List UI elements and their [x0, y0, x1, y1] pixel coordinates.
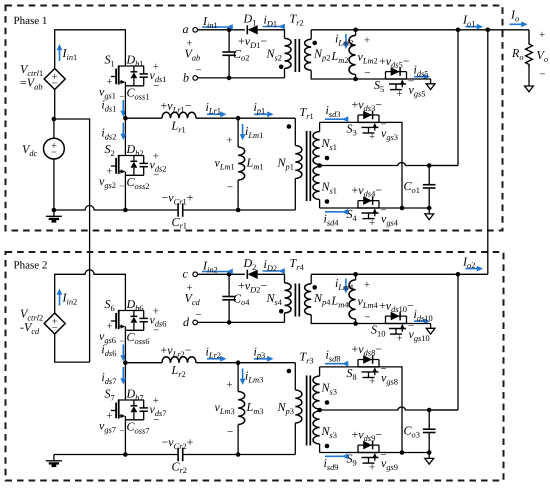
- current arrow isd3: [325, 103, 348, 122]
- labels for switch S4: [347, 183, 399, 229]
- wire bottom rail to transformer primary: [183, 454, 295, 456]
- labels for switch S2: [99, 142, 166, 191]
- wire S3 down to bottom: [379, 122, 402, 208]
- diode D2: [238, 256, 267, 295]
- current arrow Io: [510, 8, 528, 28]
- terminal b: [183, 64, 202, 84]
- capacitor Coss2: [140, 156, 148, 176]
- switch S10: [386, 312, 407, 334]
- wire terminal d to Ns4: [198, 321, 285, 323]
- wire interphase link down to Phase 2: [54, 119, 90, 362]
- node secondary center tap: [317, 163, 322, 168]
- wire between S1 and midpoint: [124, 86, 126, 118]
- current arrow Iin2: [57, 289, 78, 307]
- current arrow ids5: [414, 63, 431, 80]
- svg-text:−: −: [227, 426, 233, 438]
- svg-text:+: +: [364, 279, 370, 291]
- current arrow ip3: [254, 344, 274, 361]
- transformer Tr3 secondary winding Ns3 upper: [313, 367, 337, 409]
- junction Lm1 bottom: [236, 208, 241, 213]
- inductor Lr2: [161, 343, 197, 379]
- capacitor Coss1: [140, 66, 148, 86]
- inductor Lm3: [215, 363, 264, 455]
- current arrow Iin1: [57, 44, 78, 62]
- wire secondary top to S8: [320, 366, 358, 368]
- svg-text:+: +: [369, 461, 375, 473]
- ground arrow below Ro: [525, 68, 534, 92]
- svg-text:−: −: [52, 323, 58, 334]
- svg-text:−: −: [119, 181, 124, 191]
- wire output rail down to center tap rail: [429, 30, 458, 166]
- svg-text:d: d: [183, 315, 190, 329]
- wire secondary bottom to S9: [320, 452, 358, 454]
- wire terminal b to Ns2: [198, 77, 285, 79]
- svg-text:−: −: [380, 449, 386, 461]
- svg-text:+: +: [226, 135, 232, 147]
- ground arrow below Co3: [425, 453, 434, 465]
- current arrow isd8: [325, 348, 348, 367]
- current arrow isd9: [324, 453, 349, 471]
- switch S1: [111, 65, 144, 85]
- transformer Tr1 core: [300, 105, 314, 201]
- svg-text:a: a: [183, 22, 189, 36]
- current arrow iD1: [263, 13, 285, 30]
- ground symbol phase 2: [46, 455, 62, 466]
- current arrow ds7: [101, 367, 126, 386]
- current arrow iLm4: [335, 276, 354, 294]
- svg-text:−: −: [51, 147, 57, 158]
- wire center tap rail with hop over vertical wire: [320, 407, 458, 410]
- capacitor Coss7: [140, 400, 148, 420]
- resistor Ro: [511, 30, 532, 68]
- capacitor Coss6: [140, 311, 148, 331]
- wire S2 source to bottom rail: [123, 175, 128, 212]
- switch S4: [358, 196, 379, 218]
- wire secondary bottom to S4: [320, 207, 358, 209]
- Phase 1 dashed boundary box: [6, 6, 503, 231]
- wire bottom rectifier rail: [379, 450, 432, 455]
- labels for switch S10: [371, 298, 430, 344]
- transformer Tr2 primary winding Np2: [305, 30, 356, 79]
- wire output bus between phases: [487, 30, 489, 274]
- current arrow ds2: [101, 123, 126, 142]
- wire Lm2 to S5: [356, 78, 386, 80]
- wire midpoint to Lr2: [125, 362, 162, 364]
- wire bottom rail with hop over interphase link: [54, 206, 178, 211]
- wire midpoint to S7: [124, 363, 126, 400]
- svg-text:+: +: [369, 376, 375, 388]
- wire between S6 and midpoint: [124, 330, 126, 362]
- wire Lr2 to node with magnetizing branch: [196, 360, 240, 365]
- controlled voltage source Vctrl2: [20, 307, 65, 336]
- wire output rail down to center tap rail: [429, 274, 458, 410]
- svg-text:b: b: [183, 70, 189, 84]
- ground arrow after S5: [407, 79, 436, 90]
- inductor Lm4: [331, 272, 379, 326]
- svg-text:−: −: [195, 64, 201, 76]
- junction output capacitor top: [427, 408, 432, 413]
- inductor Lm2: [331, 28, 378, 82]
- ground symbol phase 1: [46, 210, 62, 221]
- svg-text:−: −: [195, 309, 201, 321]
- labels for switch S9: [347, 427, 398, 473]
- labels for switch S1: [99, 53, 166, 102]
- svg-text:−: −: [153, 414, 159, 426]
- transformer Tr1 primary winding Np1: [277, 118, 302, 210]
- body diode Db1: [131, 66, 138, 86]
- transformer Tr2 core: [290, 12, 304, 73]
- junction Lm3 bottom: [236, 452, 241, 457]
- current arrow iLm3: [240, 369, 264, 386]
- node between Vctrl1 and Vdc: [52, 117, 57, 122]
- svg-text:−: −: [408, 320, 414, 332]
- diode D1: [238, 12, 267, 51]
- current arrow iLr2: [206, 344, 227, 361]
- wire bottom rail phase 2: [54, 454, 178, 456]
- svg-text:+: +: [539, 29, 545, 41]
- terminal c: [183, 267, 198, 294]
- svg-text:c: c: [183, 267, 189, 281]
- wire Lm4 to S10: [356, 323, 386, 325]
- svg-text:−: −: [153, 80, 159, 92]
- wire output rail phase 2: [311, 272, 488, 277]
- node half-bridge midpoint: [123, 116, 128, 121]
- label Vcd: [185, 291, 201, 307]
- body diode Db2: [131, 156, 138, 176]
- current arrow ds6: [101, 342, 126, 362]
- switch S2: [111, 155, 144, 175]
- svg-text:+: +: [226, 379, 232, 391]
- svg-text:−: −: [364, 67, 370, 79]
- ground arrow after S10: [407, 324, 436, 335]
- transformer Tr3 secondary winding Ns3 lower: [313, 411, 337, 453]
- capacitor Co1: [404, 166, 436, 209]
- current arrow iLm1: [240, 124, 264, 141]
- wire Lr1 to node with magnetizing branch: [196, 116, 240, 121]
- svg-text:+: +: [106, 410, 112, 422]
- wire Vctrl1 bottom to node: [54, 90, 56, 120]
- current arrow Iin2 at port: [202, 259, 233, 275]
- current arrow Iin1 at port: [202, 14, 233, 30]
- svg-text:+: +: [106, 76, 112, 88]
- junction ground node: [52, 208, 57, 213]
- svg-text:−: −: [153, 170, 159, 182]
- switch S7: [111, 399, 144, 419]
- wire from source Vctrl2 top to S6 drain with hop over interphase link: [55, 270, 126, 313]
- current arrow ip1: [254, 100, 274, 117]
- svg-text:−: −: [408, 75, 414, 87]
- wire bottom rail to transformer primary: [183, 209, 295, 211]
- svg-text:+: +: [364, 35, 370, 47]
- current arrow ds1: [101, 98, 126, 118]
- wire terminal c to diode D2: [198, 272, 245, 277]
- svg-text:+: +: [369, 217, 375, 229]
- Phase 2 dashed boundary box: [6, 252, 504, 481]
- svg-text:−: −: [364, 312, 370, 324]
- terminal a: [183, 22, 198, 49]
- capacitor Co3: [404, 410, 436, 453]
- current arrow Io2: [462, 254, 483, 271]
- labels for switch S5: [374, 54, 425, 100]
- switch S6: [111, 310, 144, 330]
- svg-text:+: +: [369, 131, 375, 143]
- capacitor Co2: [222, 30, 249, 80]
- controlled voltage source Vctrl1: [20, 62, 65, 91]
- body diode Db7: [131, 400, 138, 420]
- svg-text:−: −: [380, 204, 386, 216]
- labels for switch S3: [347, 97, 398, 143]
- svg-text:−: −: [153, 325, 159, 337]
- voltage source Vdc: [22, 119, 64, 159]
- wire midpoint to S2: [124, 118, 126, 155]
- current arrow ids10: [414, 307, 433, 324]
- current arrow iLr1: [206, 100, 227, 117]
- wire output rail phase 1: [311, 28, 529, 33]
- node half-bridge midpoint: [123, 360, 128, 365]
- transformer Tr2 secondary winding Ns2: [258, 30, 291, 78]
- labels for switch S8: [347, 342, 398, 388]
- labels for switch S6: [99, 297, 166, 346]
- transformer Tr3 core: [300, 350, 314, 446]
- transformer Tr1 secondary winding Ns1 upper: [313, 122, 337, 164]
- svg-text:−: −: [380, 363, 386, 375]
- node secondary center tap: [317, 408, 322, 413]
- switch S9: [358, 441, 379, 463]
- switch S5: [386, 67, 407, 89]
- wire Vdc to ground rail: [53, 159, 55, 210]
- switch S3: [358, 111, 379, 133]
- ground arrow below Co1: [425, 208, 434, 220]
- transformer Tr1 secondary winding Ns1 lower: [313, 167, 337, 209]
- svg-text:−: −: [539, 69, 545, 81]
- svg-text:Phase 1: Phase 1: [14, 15, 48, 27]
- transformer Tr3 primary winding Np3: [277, 363, 302, 455]
- switch S8: [358, 355, 379, 377]
- wire terminal a to diode D1: [198, 28, 245, 33]
- capacitor Cr1: [162, 191, 194, 231]
- wire from source Vctrl1 top to S1 drain: [55, 30, 126, 69]
- terminal d: [183, 309, 202, 329]
- body diode Db6: [131, 311, 138, 331]
- svg-text:+: +: [106, 166, 112, 178]
- svg-text:−: −: [227, 182, 233, 194]
- wire secondary top to S3: [320, 121, 358, 123]
- label Vab: [185, 47, 201, 63]
- current arrow iLm2: [335, 32, 353, 50]
- svg-text:−: −: [119, 426, 124, 436]
- capacitor Co4: [222, 274, 250, 324]
- wire center tap rail with hop over vertical wire: [320, 163, 458, 166]
- junction output capacitor top: [427, 163, 432, 168]
- current arrow iD2: [263, 257, 285, 274]
- svg-text:−: −: [52, 79, 58, 90]
- svg-text:+: +: [396, 332, 402, 344]
- svg-text:Phase 2: Phase 2: [14, 260, 48, 272]
- transformer Tr4 secondary winding Ns4: [258, 274, 291, 322]
- svg-text:+: +: [106, 321, 112, 333]
- capacitor Cr2: [162, 435, 194, 475]
- wire source bottom to interphase link: [55, 334, 90, 362]
- wire node to transformer Tr1 primary: [238, 117, 295, 119]
- wire bottom rectifier rail: [379, 206, 432, 211]
- labels for switch S7: [99, 387, 166, 436]
- current arrow isd4: [324, 209, 349, 227]
- wire midpoint to Lr1: [125, 117, 162, 119]
- transformer Tr4 core: [290, 256, 305, 317]
- wire S7 source to bottom rail: [123, 420, 128, 457]
- transformer Tr4 primary winding Np4: [305, 274, 356, 323]
- inductor Lr1: [161, 99, 197, 135]
- label Vo: [537, 29, 549, 81]
- svg-text:−: −: [380, 119, 386, 131]
- wire S8 down to bottom: [379, 367, 402, 453]
- svg-text:+: +: [396, 88, 402, 100]
- current arrow Io1: [462, 13, 483, 30]
- wire node to transformer Tr3 primary: [238, 362, 295, 364]
- inductor Lm1: [215, 118, 264, 210]
